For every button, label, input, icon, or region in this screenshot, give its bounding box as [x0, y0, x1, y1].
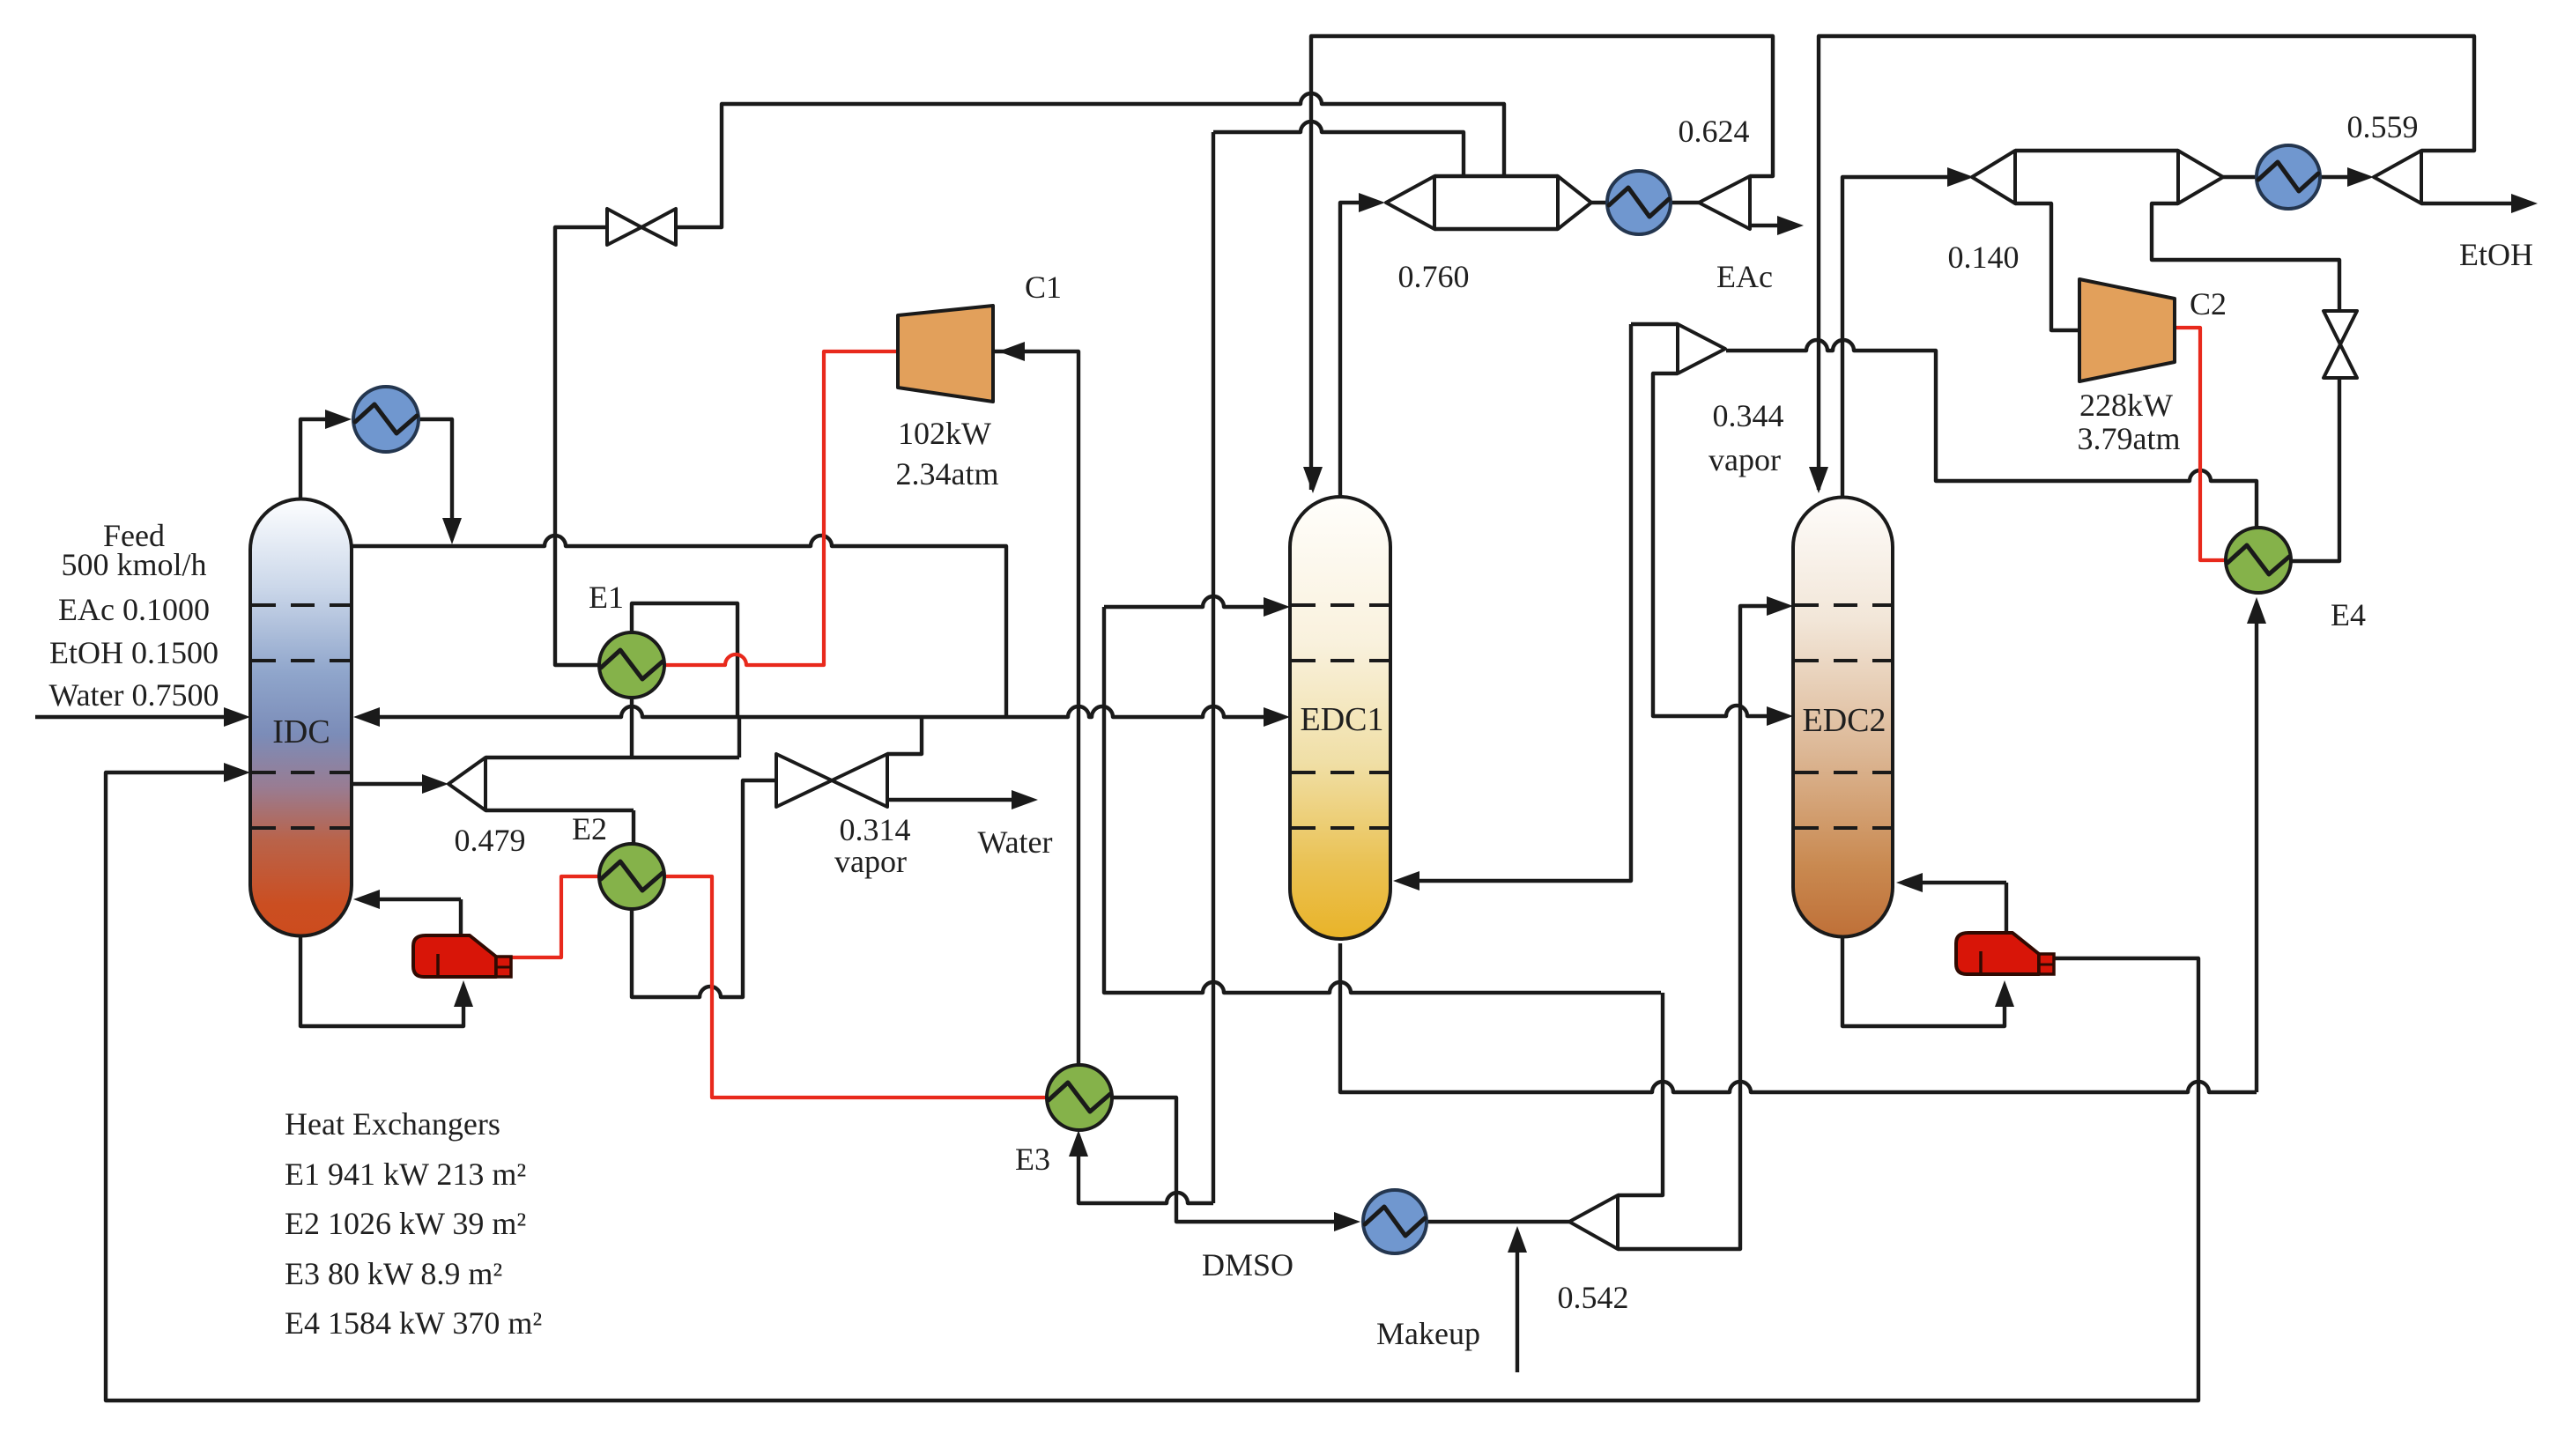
svg-text:0.140: 0.140: [1948, 240, 2020, 275]
svg-text:EDC1: EDC1: [1301, 701, 1384, 738]
svg-text:EAc: EAc: [1716, 259, 1773, 294]
svg-text:Water: Water: [977, 824, 1052, 860]
svg-text:vapor: vapor: [834, 844, 907, 879]
svg-text:E2 1026 kW 39 m²: E2 1026 kW 39 m²: [285, 1206, 526, 1241]
svg-text:3.79atm: 3.79atm: [2078, 421, 2181, 456]
svg-text:E1 941 kW 213 m²: E1 941 kW 213 m²: [285, 1157, 526, 1192]
svg-text:EtOH: EtOH: [2459, 237, 2533, 272]
svg-text:C2: C2: [2190, 286, 2227, 322]
svg-text:IDC: IDC: [272, 713, 330, 750]
svg-text:0.542: 0.542: [1558, 1280, 1629, 1315]
svg-text:E4: E4: [2331, 597, 2366, 632]
svg-text:Water 0.7500: Water 0.7500: [48, 677, 219, 713]
svg-text:500 kmol/h: 500 kmol/h: [61, 547, 206, 582]
svg-text:0.314: 0.314: [840, 812, 911, 847]
svg-text:E3: E3: [1015, 1142, 1050, 1177]
svg-text:Makeup: Makeup: [1376, 1316, 1480, 1351]
svg-text:0.479: 0.479: [455, 823, 526, 858]
svg-text:0.624: 0.624: [1679, 114, 1750, 149]
svg-text:Heat Exchangers: Heat Exchangers: [285, 1106, 500, 1142]
svg-text:E1: E1: [589, 580, 624, 615]
svg-text:0.559: 0.559: [2347, 109, 2419, 144]
svg-text:E4 1584 kW 370 m²: E4 1584 kW 370 m²: [285, 1305, 542, 1341]
svg-text:EDC2: EDC2: [1803, 702, 1886, 739]
svg-text:102kW: 102kW: [898, 416, 991, 451]
svg-text:E3 80 kW 8.9 m²: E3 80 kW 8.9 m²: [285, 1256, 502, 1291]
svg-text:EtOH 0.1500: EtOH 0.1500: [49, 635, 219, 670]
svg-text:228kW: 228kW: [2079, 388, 2173, 423]
svg-text:C1: C1: [1025, 270, 1062, 305]
svg-text:EAc 0.1000: EAc 0.1000: [58, 592, 210, 627]
svg-text:2.34atm: 2.34atm: [896, 456, 999, 491]
svg-text:0.344: 0.344: [1713, 398, 1784, 433]
svg-text:vapor: vapor: [1708, 442, 1781, 477]
svg-text:0.760: 0.760: [1398, 259, 1470, 294]
svg-text:E2: E2: [572, 811, 607, 846]
svg-text:DMSO: DMSO: [1202, 1247, 1293, 1282]
